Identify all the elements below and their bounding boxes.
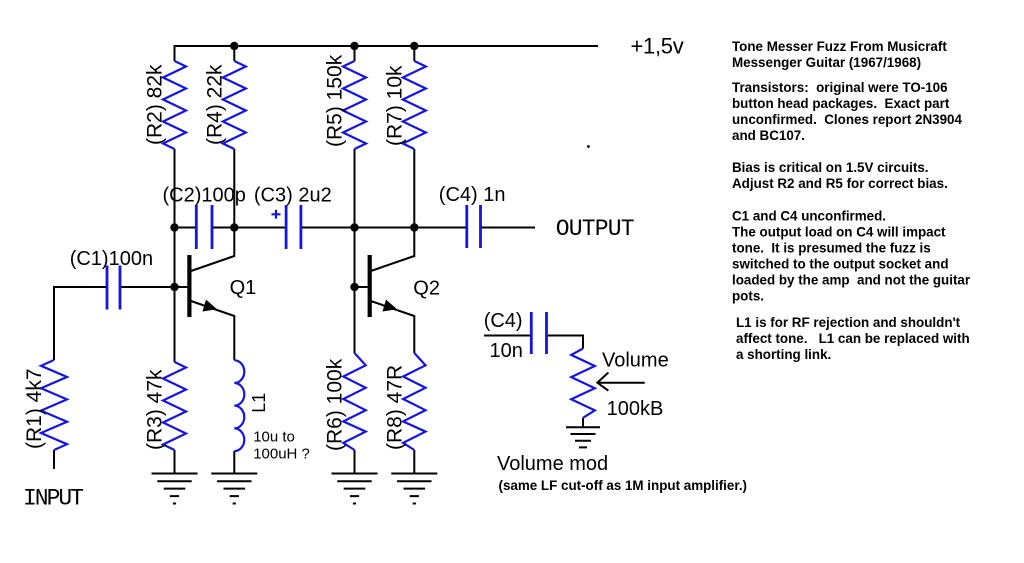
- wire: R7 top: [413, 46, 415, 61]
- svg-text:(R5) 150k: (R5) 150k: [324, 54, 347, 147]
- junction dot C3/R5 node: [350, 223, 358, 231]
- svg-text:(R4) 22k: (R4) 22k: [203, 64, 226, 145]
- wire: R1 bottom open stub: [53, 450, 55, 469]
- svg-text:tone. It is presumed the fuzz: tone. It is presumed the fuzz is: [732, 241, 931, 256]
- wire: mid rail node A to C2: [175, 227, 197, 229]
- wire: node C down to Q2 base and R6: [354, 228, 356, 354]
- svg-text:(R6) 100k: (R6) 100k: [324, 358, 347, 451]
- svg-text:L1: L1: [249, 393, 269, 413]
- svg-text:affect tone. L1 can be repla: affect tone. L1 can be replaced with: [736, 331, 970, 346]
- transistor Q2 emitter arrow: [383, 300, 398, 312]
- wiper arrow line of volume pot: [598, 382, 645, 384]
- svg-text:Tone Messer Fuzz From Musicraf: Tone Messer Fuzz From Musicraft: [732, 39, 947, 54]
- junction dot top rail R7: [410, 42, 418, 50]
- junction dot Q1 base: [170, 283, 178, 291]
- svg-text:(C3) 2u2: (C3) 2u2: [254, 185, 332, 207]
- ground under R8: [391, 474, 437, 504]
- notes paragraph 5: [736, 315, 970, 362]
- capacitor C2 plates: [196, 205, 212, 249]
- wire: R3 bottom to ground: [174, 450, 176, 474]
- wire: Q2 base lead: [355, 286, 369, 288]
- wire: L1 bottom to ground: [233, 451, 235, 474]
- wire: node A down to Q1 base and R3: [174, 228, 176, 363]
- svg-text:10u to: 10u to: [253, 428, 295, 445]
- resistor R8 47R: [403, 353, 425, 450]
- junction dot top rail R5: [350, 42, 358, 50]
- wire: C1 left lead: [54, 286, 107, 288]
- svg-text:(C1)100n: (C1)100n: [70, 248, 153, 270]
- notes paragraph 4: [732, 209, 971, 304]
- svg-text:(C4): (C4): [484, 310, 523, 332]
- svg-text:a shorting link.: a shorting link.: [736, 347, 831, 362]
- svg-text:Q1: Q1: [230, 277, 257, 299]
- inductor L1: [234, 360, 244, 451]
- svg-text:Q2: Q2: [413, 278, 440, 300]
- svg-text:C1 and C4 unconfirmed.: C1 and C4 unconfirmed.: [732, 209, 886, 224]
- resistor R7 10k: [403, 61, 426, 149]
- potentiometer Volume 100kB: [571, 349, 595, 418]
- svg-text:Bias is critical on 1.5V circu: Bias is critical on 1.5V circuits.: [732, 160, 929, 175]
- wire: R5 top: [354, 46, 356, 61]
- wire: volume mod C4 left stub: [484, 335, 531, 337]
- transistor Q2 emitter: [371, 301, 415, 353]
- capacitor C1 plates: [107, 266, 120, 310]
- transistor Q1 emitter arrow: [203, 300, 218, 312]
- wire: R2 top: [174, 45, 176, 61]
- wire: volume mod C4 to pot: [547, 336, 584, 349]
- svg-text:L1 is for RF rejection and sho: L1 is for RF rejection and shouldn't: [736, 315, 961, 330]
- svg-text:and BC107.: and BC107.: [732, 128, 805, 143]
- wire: C1 right lead: [120, 286, 175, 288]
- notes paragraph 2: [732, 80, 962, 143]
- svg-text:+1,5v: +1,5v: [631, 34, 684, 59]
- svg-text:loaded by the amp and not the: loaded by the amp and not the guitar: [732, 273, 971, 288]
- capacitor C4 plates (output): [467, 205, 481, 248]
- wire: R4 bottom to Q1 collector node: [233, 149, 235, 228]
- svg-text:Adjust R2 and R5 for correct b: Adjust R2 and R5 for correct bias.: [732, 176, 948, 191]
- svg-text:(C4) 1n: (C4) 1n: [439, 184, 506, 206]
- ground under R6: [332, 474, 378, 504]
- svg-text:(R2) 82k: (R2) 82k: [144, 64, 167, 145]
- svg-text:switched to the output socket: switched to the output socket and: [732, 257, 949, 272]
- wire: +1.5v top rail: [175, 45, 599, 47]
- junction dot Q2 collector node: [410, 223, 418, 231]
- svg-text:INPUT: INPUT: [23, 486, 83, 512]
- ground under R3: [152, 474, 198, 504]
- wire: R8 bottom to ground: [413, 450, 415, 474]
- svg-text:Messenger Guitar (1967/1968): Messenger Guitar (1967/1968): [732, 55, 921, 70]
- svg-text:unconfirmed. Clones report 2N: unconfirmed. Clones report 2N3904: [732, 112, 962, 127]
- junction dot node A (R2/C2/base Q1): [170, 223, 178, 231]
- svg-text:OUTPUT: OUTPUT: [556, 216, 634, 242]
- svg-text:(R7) 10k: (R7) 10k: [383, 65, 406, 146]
- notes paragraph 1: [732, 39, 947, 70]
- svg-text:pots.: pots.: [732, 289, 764, 304]
- svg-text:100uH ?: 100uH ?: [253, 445, 310, 462]
- svg-text:(R1) 4k7: (R1) 4k7: [23, 368, 46, 449]
- wire: R7 bottom to C4 node: [413, 149, 415, 228]
- junction dot Q1 collector node: [230, 223, 238, 231]
- notes paragraph 3: [732, 160, 948, 191]
- transistor Q2 base bar: [368, 255, 372, 317]
- transistor Q2 collector: [371, 228, 415, 272]
- wire: R6 bottom to ground: [354, 450, 356, 474]
- svg-text:Transistors: original were TO: Transistors: original were TO-106: [732, 80, 948, 95]
- ground under volume pot: [566, 427, 600, 447]
- resistor R6 100k: [343, 353, 365, 450]
- transistor Q1 collector: [191, 228, 234, 272]
- svg-text:button head packages. Exact p: button head packages. Exact part: [732, 96, 950, 111]
- wire: C2 to C3: [212, 227, 286, 229]
- resistor R3 47k: [163, 362, 186, 450]
- stray ink dot: [587, 145, 590, 148]
- svg-text:Volume mod: Volume mod: [497, 453, 608, 475]
- svg-text:10n: 10n: [490, 340, 523, 362]
- svg-text:(R8) 47R: (R8) 47R: [383, 365, 406, 450]
- resistor R4 22k: [223, 61, 246, 149]
- svg-text:Volume: Volume: [602, 350, 669, 372]
- wiper arrowhead: [597, 373, 608, 391]
- wire: R5 bottom to C3 node: [354, 149, 356, 228]
- svg-text:(C2)100p: (C2)100p: [163, 185, 246, 207]
- resistor R2 82k: [163, 61, 186, 149]
- junction dot top rail R4: [230, 42, 238, 50]
- wire: R2 bottom to C2 node: [174, 149, 176, 228]
- svg-text:(same LF cut-off as 1M input a: (same LF cut-off as 1M input amplifier.): [499, 478, 748, 493]
- transistor Q1 emitter: [191, 301, 234, 360]
- resistor R1 4k7: [41, 360, 67, 450]
- svg-text:The output load on C4 will imp: The output load on C4 will impact: [732, 225, 946, 240]
- ground under L1: [211, 474, 257, 504]
- wire: pot bottom to ground: [582, 418, 584, 427]
- svg-text:100kB: 100kB: [607, 398, 664, 420]
- junction dot Q2 base: [350, 283, 358, 291]
- resistor R5 150k: [343, 61, 366, 149]
- wire: Q1 base lead: [175, 286, 189, 288]
- capacitor C4 plates (volume mod): [531, 312, 546, 354]
- C3 polarity plus sign: [272, 210, 281, 219]
- wire: R4 top: [233, 46, 235, 61]
- svg-text:(R3) 47k: (R3) 47k: [144, 369, 167, 450]
- wire: C3 to C4: [301, 227, 467, 229]
- wire: C4 to OUTPUT: [481, 227, 536, 229]
- transistor Q1 base bar: [187, 255, 191, 317]
- capacitor C3 plates: [286, 205, 301, 249]
- wire: input stub down to R1: [53, 286, 55, 360]
